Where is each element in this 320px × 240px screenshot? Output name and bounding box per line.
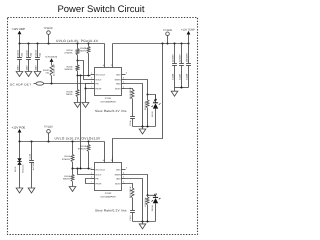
svg-text:UVLO (≥10.2V, OVLO≤13V: UVLO (≥10.2V, OVLO≤13V <box>55 137 101 141</box>
junctions bus1b <box>162 43 190 45</box>
svg-text:GND: GND <box>116 177 121 180</box>
wire output bus1b <box>113 43 189 45</box>
ground under C1102 <box>25 72 32 77</box>
svg-text:UVLO (≥8.4V, PG≥10.4V: UVLO (≥8.4V, PG≥10.4V <box>56 39 99 43</box>
IC2 top pin stubs <box>105 157 113 163</box>
svg-text:OUST: OUST <box>115 87 122 90</box>
svg-text:PGTH: PGTH <box>96 182 102 185</box>
svg-text:9: 9 <box>123 77 124 80</box>
svg-text:100V: 100V <box>34 65 37 71</box>
svg-text:TP1108: TP1108 <box>44 27 53 30</box>
svg-text:100V: 100V <box>16 65 19 71</box>
svg-text:ON UVLO: ON UVLO <box>96 73 106 76</box>
power arrow +3.3V <box>50 58 54 65</box>
junction loop bottom <box>85 88 87 90</box>
svg-text:IC1101: IC1101 <box>105 97 112 100</box>
IC1 left pin numbers <box>91 72 92 89</box>
wire node to LED <box>148 95 156 102</box>
power arrow +12V POE <box>18 129 22 142</box>
rail junctions <box>181 87 183 89</box>
svg-text:5: 5 <box>123 81 124 84</box>
svg-text:9: 9 <box>123 172 124 175</box>
IC2 pin names left <box>96 168 106 185</box>
svg-text:C1109: C1109 <box>185 73 188 80</box>
test point TP1108 <box>44 27 53 43</box>
svg-text:R1110 SRON: R1110 SRON <box>129 87 132 99</box>
IC2 right pin numbers <box>123 167 127 184</box>
LED D1104 <box>151 194 160 222</box>
svg-text:100n/25V: 100n/25V <box>185 53 188 63</box>
wire bus1 corner into IN pin <box>104 44 106 62</box>
pin number 2 IC2 <box>111 159 113 162</box>
resistor R1115 <box>63 169 74 187</box>
svg-text:C1101: C1101 <box>16 49 19 56</box>
IC2 pin names right <box>115 168 122 185</box>
capacitor C1103 <box>34 44 41 72</box>
IC1 pin names left <box>96 73 106 90</box>
loop wire PG-PGTH <box>86 84 91 89</box>
LED D1103 <box>151 95 160 127</box>
rail1 junctions <box>142 126 149 128</box>
wire rail1 <box>133 126 156 128</box>
capacitor C1110 snubber <box>129 211 135 222</box>
IC1 right pin stubs <box>122 75 126 89</box>
test point TP1109 <box>163 29 172 44</box>
net note UVLO stage2 <box>55 137 101 141</box>
net label +12V ADP <box>12 27 25 31</box>
wire loop to ground <box>85 89 87 103</box>
svg-text:GND: GND <box>116 82 121 85</box>
ground under C1101 <box>16 72 23 77</box>
label R1110 <box>129 87 132 116</box>
resistor R1102 <box>43 63 56 84</box>
wire GND pin to rail 2 <box>126 179 143 222</box>
svg-text:TP1110: TP1110 <box>44 126 53 129</box>
IC2 left pin stubs <box>91 170 95 184</box>
IC1 right pin numbers <box>123 72 127 89</box>
svg-text:PG: PG <box>96 177 99 180</box>
net label +12V POE <box>12 125 26 129</box>
svg-text:LM73100MPWR: LM73100MPWR <box>100 195 116 198</box>
capacitor C1109 <box>185 44 191 88</box>
svg-text:R1102: R1102 <box>43 69 50 72</box>
resistor R1104 <box>64 44 79 61</box>
ground under R1115 <box>69 187 76 192</box>
svg-text:DC ADP DET: DC ADP DET <box>10 82 31 86</box>
svg-text:R1115: R1115 <box>64 175 71 178</box>
svg-text:R1108: R1108 <box>80 47 87 50</box>
svg-text:1u/100V: 1u/100V <box>171 54 174 63</box>
svg-text:C1103: C1103 <box>34 49 37 56</box>
resistor R1113 <box>144 195 149 221</box>
wire node to LED 2 <box>148 195 156 197</box>
svg-text:3: 3 <box>123 181 124 184</box>
wire SRON pin to node <box>126 80 148 95</box>
svg-text:ON UVLO: ON UVLO <box>96 168 106 171</box>
svg-text:D1102: D1102 <box>14 167 17 172</box>
svg-text:IC1102: IC1102 <box>105 192 112 195</box>
svg-text:100V: 100V <box>25 65 28 71</box>
ground loop <box>82 103 89 108</box>
test point TP1110 <box>44 126 53 142</box>
node tap1 <box>77 60 79 62</box>
svg-text:3: 3 <box>123 86 124 89</box>
svg-text:OVLO: OVLO <box>96 78 102 81</box>
svg-text:2: 2 <box>91 172 92 175</box>
wire cap rail top-right <box>175 87 189 89</box>
svg-text:1u/100V: 1u/100V <box>178 54 181 63</box>
svg-text:C1108: C1108 <box>28 154 31 159</box>
resistor R1110 <box>131 90 134 100</box>
wire bus2 corner into IN pin 2 <box>104 142 106 157</box>
svg-text:7: 7 <box>91 181 92 184</box>
svg-text:6: 6 <box>91 81 92 84</box>
label R1112 <box>129 186 132 210</box>
ground under C1103 <box>34 72 41 77</box>
loop wire PG-PGTH 2 <box>86 179 91 184</box>
svg-text:D1103: D1103 <box>151 112 154 117</box>
resistor R1112 <box>131 185 134 199</box>
svg-text:679k/1%: 679k/1% <box>78 148 86 151</box>
ground rail1 <box>139 127 146 135</box>
svg-text:6: 6 <box>91 176 92 179</box>
svg-text:R1114: R1114 <box>64 155 71 158</box>
svg-text:Power Switch Circuit: Power Switch Circuit <box>57 4 144 15</box>
op-amp U1 IC1101 power switch <box>95 68 122 96</box>
svg-text:DC_ADP_DET: DC_ADP_DET <box>53 63 56 76</box>
svg-text:SMAJ12A: SMAJ12A <box>22 164 25 173</box>
wire input bus2 <box>19 141 105 143</box>
svg-text:1: 1 <box>91 167 92 170</box>
node SRON 2 <box>147 194 149 196</box>
power arrow +12V TEMP <box>187 31 191 44</box>
svg-text:R1104: R1104 <box>67 49 74 52</box>
svg-text:C1110: C1110 <box>129 216 132 221</box>
resistor R1106 <box>66 76 79 103</box>
IC2 refdes <box>100 192 116 198</box>
svg-text:PGTH: PGTH <box>96 87 102 90</box>
svg-text:8: 8 <box>126 72 127 75</box>
net label +12V TEMP <box>181 28 195 31</box>
svg-text:+12V ADP: +12V ADP <box>12 27 25 31</box>
IC1 refdes <box>100 97 116 103</box>
resistor R1114 <box>62 142 74 169</box>
svg-text:TP1109: TP1109 <box>163 29 172 32</box>
svg-text:2: 2 <box>91 77 92 80</box>
pin number 4 IC1 <box>103 64 105 67</box>
svg-text:276k/1%: 276k/1% <box>64 52 72 55</box>
svg-text:R1116: R1116 <box>80 145 87 148</box>
svg-text:1: 1 <box>91 72 92 75</box>
junction DC det / pullup <box>51 83 53 85</box>
op-amp U2 IC1102 power switch <box>95 163 122 191</box>
wire input bus1 <box>19 43 105 45</box>
wire output down-link <box>113 44 163 163</box>
rail2 junctions <box>142 221 149 223</box>
svg-text:R1106: R1106 <box>67 90 74 93</box>
svg-text:7: 7 <box>91 86 92 89</box>
svg-text:Slew Rate/0.2V /ms: Slew Rate/0.2V /ms <box>95 208 127 212</box>
junction dots on bus1 <box>19 43 90 45</box>
wire rail2 <box>133 221 156 223</box>
svg-text:C1106: C1106 <box>129 121 132 126</box>
ferrite bead FB1101 <box>34 82 91 85</box>
svg-text:276k/1%: 276k/1% <box>78 50 86 53</box>
resistor R1111 <box>144 95 149 127</box>
IC1 left pin stubs <box>91 75 95 89</box>
capacitor C1107 <box>178 44 184 88</box>
wire branch tap1 to OVLO pin <box>78 61 91 80</box>
capacitor C1106 snubber <box>129 117 135 127</box>
wire OUST pin to snubber 2 <box>126 184 133 185</box>
svg-text:Slew Rate/0.2V /ms: Slew Rate/0.2V /ms <box>95 109 127 113</box>
ground top-right caps <box>171 88 178 97</box>
ground under R1106 <box>74 103 81 108</box>
svg-text:ONC: ONC <box>116 73 121 76</box>
svg-text:ONC: ONC <box>116 168 121 171</box>
power arrow +12V ADP <box>18 31 22 44</box>
svg-text:OVLO: OVLO <box>96 173 102 176</box>
capacitor C1105 <box>171 44 177 88</box>
sheet dashed border <box>8 18 198 235</box>
svg-text:8: 8 <box>126 167 127 170</box>
IC2 left pin numbers <box>91 167 92 184</box>
svg-text:+12V TEMP: +12V TEMP <box>181 28 195 31</box>
IC1 top pin stubs <box>105 44 113 68</box>
svg-text:R1113 10k: R1113 10k <box>144 198 147 207</box>
wire UVLO tap down-link <box>80 76 82 169</box>
svg-text:679k/1%: 679k/1% <box>62 158 70 161</box>
net label DC ADP DET <box>10 82 31 86</box>
TVS diode D1102 <box>14 142 24 189</box>
ground rail2 <box>139 222 146 229</box>
svg-text:C1107: C1107 <box>178 73 181 80</box>
svg-text:+3.3V [MAIN]: +3.3V [MAIN] <box>45 56 58 59</box>
pin number 4 IC2 <box>103 159 105 162</box>
svg-text:D1104: D1104 <box>151 206 154 211</box>
net note UVLO stage1 <box>56 39 99 43</box>
svg-text:5: 5 <box>123 176 124 179</box>
wire SRON pin to node 2 <box>126 175 148 196</box>
resistor R1108 <box>78 44 90 76</box>
ground under D1102 <box>16 188 23 193</box>
title <box>57 4 144 15</box>
node tap wire to pin ON/UVLO 2 <box>72 168 91 170</box>
note slew rate 2 <box>95 208 127 212</box>
wire branch to OVLO pin 2 <box>78 169 91 175</box>
resistor R1116 <box>78 142 90 169</box>
svg-text:100k/1%: 100k/1% <box>64 68 72 71</box>
IC2 right pin stubs <box>122 170 126 184</box>
svg-text:+12V POE: +12V POE <box>12 125 26 129</box>
junction dots on bus2 <box>19 141 90 143</box>
node SRON <box>147 94 149 96</box>
svg-text:C1105: C1105 <box>171 73 174 80</box>
net label +3.3V MAIN <box>45 56 58 59</box>
svg-text:SRON: SRON <box>115 78 122 81</box>
ground under C1108 <box>28 188 35 193</box>
capacitor C1108 <box>28 142 35 189</box>
svg-text:R1111 10k: R1111 10k <box>144 101 147 110</box>
wire GND pin to rail <box>126 84 143 127</box>
IC1 pin names right <box>115 73 122 90</box>
svg-text:R1105: R1105 <box>67 65 74 68</box>
note slew rate 1 <box>95 109 127 113</box>
svg-text:LM73100MPWR: LM73100MPWR <box>100 100 116 103</box>
svg-text:PG: PG <box>96 82 99 85</box>
svg-text:82k/1%: 82k/1% <box>63 177 70 180</box>
capacitor C1101 <box>16 44 23 72</box>
svg-text:SRON: SRON <box>115 173 122 176</box>
svg-text:C1102: C1102 <box>25 49 28 56</box>
svg-text:OUST: OUST <box>115 182 122 185</box>
svg-text:4u7/100V: 4u7/100V <box>32 161 35 170</box>
svg-text:R1112 SRON: R1112 SRON <box>129 186 132 198</box>
pin number 2 IC1 <box>111 64 113 67</box>
capacitor C1102 <box>25 44 32 72</box>
svg-text:79k/1%: 79k/1% <box>66 93 73 96</box>
wire OUST pin to snubber <box>126 89 133 90</box>
resistor R1105 <box>64 61 79 76</box>
node tap2 wire to pin ON/UVLO <box>77 75 91 77</box>
